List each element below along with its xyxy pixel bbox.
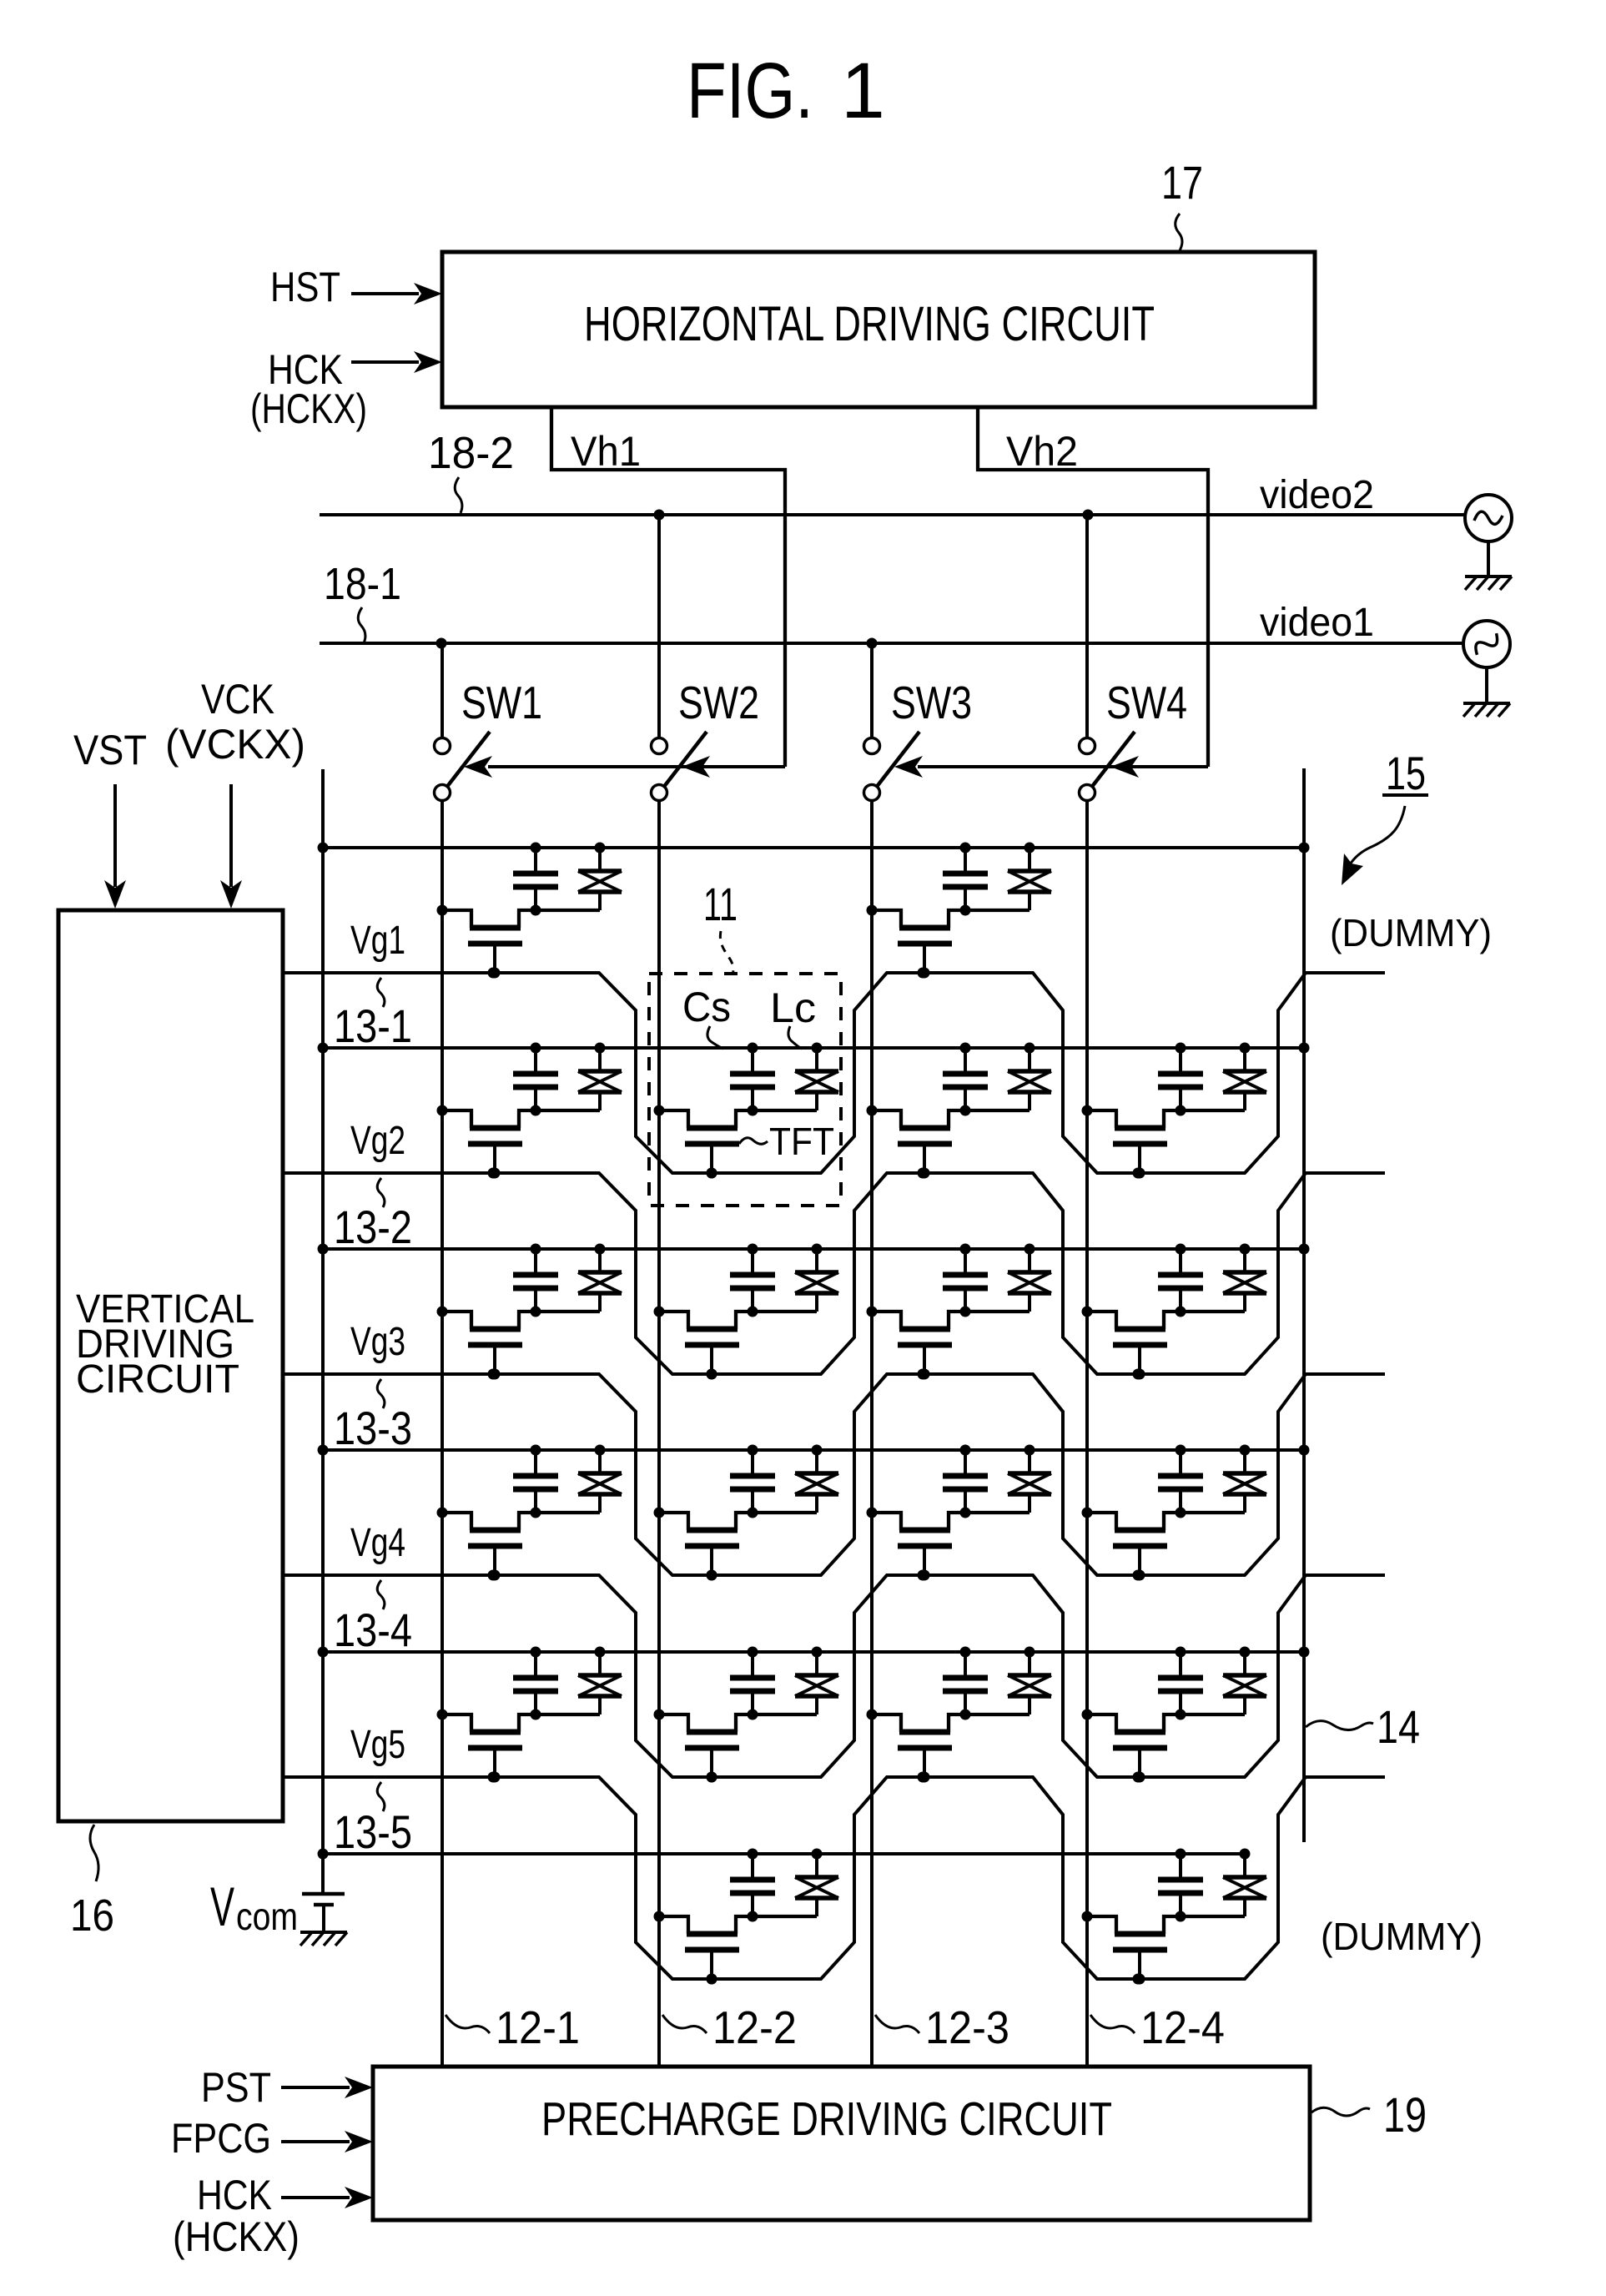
switch SW2	[652, 515, 707, 801]
TFT transistor (cell F/12-2)	[654, 1911, 818, 1985]
label Cs with leader	[682, 984, 731, 1049]
TFT transistor (cell B/12-4)	[1082, 1105, 1246, 1179]
storage capacitor Cs (cell B/12-1)	[513, 1043, 558, 1116]
gate line Vg1 (staircase)	[283, 968, 1385, 1179]
TFT transistor (cell D/12-4)	[1082, 1508, 1246, 1581]
label Vcom	[210, 1876, 298, 1938]
TFT transistor (cell C/12-4)	[1082, 1307, 1246, 1380]
liquid crystal element Lc (cell F/12-4)	[1223, 1849, 1266, 1917]
gate line Vg3 (staircase)	[283, 1369, 1385, 1581]
svg-text:SW1: SW1	[461, 677, 542, 728]
storage capacitor Cs (cell E/12-2)	[730, 1647, 775, 1720]
AC source video2	[1465, 495, 1512, 541]
column data line 12-4	[1085, 801, 1089, 2067]
svg-text:Vg3: Vg3	[350, 1320, 405, 1364]
svg-text:video2: video2	[1260, 473, 1374, 517]
svg-text:(DUMMY): (DUMMY)	[1321, 1915, 1483, 1958]
common storage line 13-4	[318, 1647, 1310, 1658]
label TFT with leader	[739, 1120, 834, 1163]
TFT transistor (cell E/12-1)	[437, 1709, 601, 1783]
svg-text:18-2: 18-2	[428, 428, 514, 478]
pixel cell row A column 12-1	[437, 843, 622, 979]
liquid crystal element Lc (cell C/12-4)	[1223, 1244, 1266, 1312]
label 12-3 with leader	[875, 2001, 1009, 2053]
svg-text:13-4: 13-4	[334, 1604, 412, 1656]
storage capacitor Cs (cell B/12-3)	[943, 1043, 988, 1116]
svg-text:(VCKX): (VCKX)	[165, 721, 305, 768]
svg-text:HORIZONTAL DRIVING CIRCUIT: HORIZONTAL DRIVING CIRCUIT	[584, 297, 1155, 351]
svg-text:(HCKX): (HCKX)	[173, 2213, 300, 2260]
label 12-4 with leader	[1090, 2001, 1225, 2053]
column data line 12-2	[657, 801, 661, 2067]
pixel cell row B column 12-2	[654, 1043, 839, 1179]
storage capacitor Cs (cell D/12-3)	[943, 1445, 988, 1518]
storage capacitor Cs (cell A/12-1)	[513, 843, 558, 916]
pixel cell row B column 12-1	[437, 1043, 622, 1179]
liquid crystal element Lc (cell D/12-1)	[578, 1445, 622, 1513]
TFT transistor (cell C/12-3)	[867, 1307, 1030, 1380]
svg-text:Vh1: Vh1	[571, 428, 641, 475]
storage capacitor Cs (cell B/12-2)	[730, 1043, 775, 1116]
TFT transistor (cell A/12-1)	[437, 905, 601, 979]
video line 18-1 (video1)	[320, 638, 1463, 649]
label 13-2 with leader	[334, 1178, 412, 1253]
svg-text:19: 19	[1383, 2088, 1427, 2142]
svg-text:PRECHARGE DRIVING CIRCUIT: PRECHARGE DRIVING CIRCUIT	[541, 2092, 1112, 2146]
TFT transistor (cell E/12-2)	[654, 1709, 818, 1783]
svg-text:12-1: 12-1	[496, 2001, 580, 2053]
dummy column vertical line (right)	[1302, 768, 1306, 1842]
liquid crystal element Lc (cell E/12-1)	[578, 1647, 622, 1715]
column data line 12-3	[870, 801, 873, 2067]
liquid crystal element Lc (cell D/12-2)	[795, 1445, 838, 1513]
svg-text:(DUMMY): (DUMMY)	[1330, 911, 1492, 954]
pixel cell row D column 12-3	[867, 1445, 1052, 1581]
storage capacitor Cs (cell D/12-1)	[513, 1445, 558, 1518]
input HST	[270, 264, 442, 310]
svg-text:Vg2: Vg2	[350, 1119, 405, 1163]
svg-text:SW4: SW4	[1106, 677, 1187, 728]
TFT transistor (cell F/12-4)	[1082, 1911, 1246, 1985]
figure title FIG. 1	[687, 47, 885, 135]
liquid crystal element Lc (cell A/12-3)	[1008, 843, 1051, 911]
TFT transistor (cell B/12-2)	[654, 1105, 818, 1179]
svg-text:TFT: TFT	[769, 1120, 834, 1163]
svg-text:PST: PST	[201, 2064, 271, 2111]
TFT transistor (cell D/12-1)	[437, 1508, 601, 1581]
svg-text:video1: video1	[1260, 601, 1374, 645]
liquid crystal element Lc (cell E/12-2)	[795, 1647, 838, 1715]
svg-text:12-3: 12-3	[925, 2001, 1009, 2053]
storage capacitor Cs (cell C/12-4)	[1158, 1244, 1203, 1317]
svg-text:FIG.: FIG.	[687, 47, 813, 135]
common storage line (top dummy row)	[318, 843, 1310, 853]
pixel cell row E column 12-3	[867, 1647, 1052, 1783]
liquid crystal element Lc (cell E/12-3)	[1008, 1647, 1051, 1715]
svg-text:SW2: SW2	[678, 677, 759, 728]
svg-text:com: com	[236, 1895, 298, 1938]
input VST	[73, 727, 147, 909]
input PST	[201, 2064, 373, 2111]
label 13-4 with leader	[334, 1580, 412, 1656]
horizontal driving circuit block 17	[442, 252, 1315, 407]
pixel cell row F column 12-4	[1082, 1849, 1267, 1985]
svg-text:17: 17	[1161, 156, 1203, 209]
label 11 with dashed leader	[703, 878, 738, 973]
common storage line 13-5	[318, 1849, 1246, 1860]
storage capacitor Cs (cell F/12-2)	[730, 1849, 775, 1922]
liquid crystal element Lc (cell B/12-4)	[1223, 1043, 1266, 1111]
storage capacitor Cs (cell C/12-2)	[730, 1244, 775, 1317]
storage capacitor Cs (cell C/12-3)	[943, 1244, 988, 1317]
svg-text:13-5: 13-5	[334, 1805, 412, 1858]
svg-text:FPCG: FPCG	[171, 2115, 271, 2162]
TFT transistor (cell E/12-3)	[867, 1709, 1030, 1783]
pixel cell row D column 12-4	[1082, 1445, 1267, 1581]
AC source video1	[1463, 621, 1510, 667]
pixel cell row C column 12-1	[437, 1244, 622, 1380]
svg-text:15: 15	[1386, 747, 1426, 799]
svg-text:VCK: VCK	[201, 676, 274, 723]
label 18-2 with leader	[428, 428, 514, 513]
label 18-1 with leader	[324, 559, 401, 643]
liquid crystal element Lc (cell C/12-1)	[578, 1244, 622, 1312]
dashed outline of unit pixel 11	[649, 974, 841, 1206]
svg-text:HST: HST	[270, 264, 340, 310]
label 14 with leader	[1306, 1700, 1420, 1753]
svg-text:SW3: SW3	[891, 677, 972, 728]
column data line 12-1	[441, 801, 444, 2067]
TFT transistor (cell B/12-1)	[437, 1105, 601, 1179]
common storage line 13-2	[318, 1244, 1310, 1255]
common storage line 13-1	[318, 1043, 1310, 1054]
input FPCG	[171, 2115, 373, 2162]
label 19 with leader	[1311, 2088, 1427, 2142]
TFT transistor (cell C/12-2)	[654, 1307, 818, 1380]
storage capacitor Cs (cell E/12-3)	[943, 1647, 988, 1720]
ground of video2 source	[1465, 541, 1512, 590]
storage capacitor Cs (cell A/12-3)	[943, 843, 988, 916]
svg-text:16: 16	[70, 1891, 114, 1941]
label 15 with curved arrow	[1342, 747, 1428, 885]
pixel cell row C column 12-3	[867, 1244, 1052, 1380]
label 16 with leader	[70, 1825, 114, 1941]
common storage line 13-3	[318, 1445, 1310, 1456]
label 12-2 with leader	[662, 2001, 797, 2053]
pixel cell row D column 12-2	[654, 1445, 839, 1581]
storage capacitor Cs (cell E/12-1)	[513, 1647, 558, 1720]
pixel cell row B column 12-4	[1082, 1043, 1267, 1179]
label Lc with leader	[770, 984, 816, 1049]
svg-text:Vg5: Vg5	[350, 1723, 405, 1767]
svg-text:13-1: 13-1	[334, 999, 412, 1052]
liquid crystal element Lc (cell B/12-1)	[578, 1043, 622, 1111]
liquid crystal element Lc (cell D/12-3)	[1008, 1445, 1051, 1513]
pixel cell row B column 12-3	[867, 1043, 1052, 1179]
storage capacitor Cs (cell D/12-2)	[730, 1445, 775, 1518]
pixel cell row C column 12-4	[1082, 1244, 1267, 1380]
pixel cell row F column 12-2	[654, 1849, 839, 1985]
liquid crystal element Lc (cell A/12-1)	[578, 843, 622, 911]
pixel cell row D column 12-1	[437, 1445, 622, 1581]
svg-text:12-4: 12-4	[1140, 2001, 1225, 2053]
svg-text:13-3: 13-3	[334, 1402, 412, 1454]
svg-text:Vg4: Vg4	[350, 1521, 405, 1565]
label 13-5 with leader	[334, 1782, 412, 1858]
label 13-3 with leader	[334, 1379, 412, 1454]
gate line Vg5 (staircase)	[283, 1772, 1385, 1985]
svg-text:1: 1	[841, 47, 885, 135]
precharge driving circuit block 19	[373, 2067, 1310, 2220]
liquid crystal element Lc (cell E/12-4)	[1223, 1647, 1266, 1715]
TFT transistor (cell E/12-4)	[1082, 1709, 1246, 1783]
Vcom terminal and ground	[300, 1854, 347, 1946]
input HCK (HCKX)	[250, 346, 442, 432]
video line 18-2 (video2)	[320, 510, 1465, 521]
svg-text:Lc: Lc	[770, 984, 816, 1031]
wire Vh1 from horizontal driving circuit to SW1/SW2	[464, 407, 785, 778]
svg-text:12-2: 12-2	[712, 2001, 797, 2053]
gate line Vg4 (staircase)	[283, 1570, 1385, 1783]
svg-text:HCK: HCK	[197, 2172, 272, 2218]
input HCK (HCKX) bottom	[173, 2172, 373, 2260]
TFT transistor (cell C/12-1)	[437, 1307, 601, 1380]
liquid crystal element Lc (cell D/12-4)	[1223, 1445, 1266, 1513]
storage capacitor Cs (cell D/12-4)	[1158, 1445, 1203, 1518]
pixel cell row C column 12-2	[654, 1244, 839, 1380]
switch SW1	[435, 643, 491, 801]
storage capacitor Cs (cell B/12-4)	[1158, 1043, 1203, 1116]
label 12-1 with leader	[446, 2001, 580, 2053]
liquid crystal element Lc (cell C/12-2)	[795, 1244, 838, 1312]
switch SW3	[864, 643, 920, 801]
pixel cell row A column 12-3	[867, 843, 1052, 979]
switch SW4	[1080, 515, 1135, 801]
ground of video1 source	[1463, 667, 1510, 717]
svg-text:V: V	[210, 1876, 234, 1937]
svg-text:Vh2: Vh2	[1006, 428, 1078, 475]
svg-text:Vg1: Vg1	[350, 919, 405, 963]
liquid crystal element Lc (cell B/12-2)	[795, 1043, 838, 1111]
liquid crystal element Lc (cell F/12-2)	[795, 1849, 838, 1917]
svg-text:13-2: 13-2	[334, 1201, 412, 1253]
pixel cell row E column 12-4	[1082, 1647, 1267, 1783]
liquid crystal element Lc (cell C/12-3)	[1008, 1244, 1051, 1312]
TFT transistor (cell B/12-3)	[867, 1105, 1030, 1179]
storage capacitor Cs (cell C/12-1)	[513, 1244, 558, 1317]
pixel cell row E column 12-1	[437, 1647, 622, 1783]
label 17 with leader	[1161, 156, 1203, 252]
gate line Vg2 (staircase)	[283, 1168, 1385, 1380]
TFT transistor (cell A/12-3)	[867, 905, 1030, 979]
liquid crystal element Lc (cell B/12-3)	[1008, 1043, 1051, 1111]
svg-text:Cs: Cs	[682, 984, 731, 1030]
svg-text:18-1: 18-1	[324, 559, 401, 609]
svg-text:11: 11	[703, 878, 738, 930]
wire Vh2 from horizontal driving circuit to SW3/SW4	[894, 407, 1208, 778]
storage capacitor Cs (cell F/12-4)	[1158, 1849, 1203, 1922]
svg-text:14: 14	[1377, 1700, 1420, 1753]
TFT transistor (cell D/12-3)	[867, 1508, 1030, 1581]
svg-text:(HCKX): (HCKX)	[250, 385, 367, 432]
svg-text:VST: VST	[73, 727, 147, 773]
Vcom common vertical line (left)	[321, 769, 325, 1854]
input VCK (VCKX)	[165, 676, 305, 909]
TFT transistor (cell D/12-2)	[654, 1508, 818, 1581]
pixel cell row E column 12-2	[654, 1647, 839, 1783]
label 13-1 with leader	[334, 978, 412, 1052]
svg-text:CIRCUIT: CIRCUIT	[76, 1357, 239, 1402]
storage capacitor Cs (cell E/12-4)	[1158, 1647, 1203, 1720]
vertical driving circuit block 16	[58, 910, 283, 1821]
